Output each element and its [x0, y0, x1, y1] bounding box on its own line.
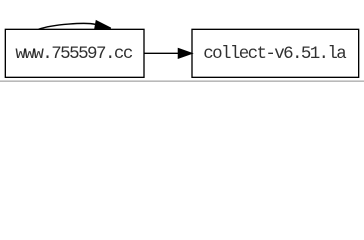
node collect-v6.51.la	[192, 29, 359, 77]
node www.755597.cc	[5, 29, 144, 77]
svg-text:collect-v6.51.la: collect-v6.51.la	[203, 44, 347, 64]
arrowhead of self-loop	[95, 21, 111, 29]
edge www.755597.cc -> collect-v6.51.la	[144, 52, 178, 54]
separator line	[0, 81, 364, 82]
self-loop edge www.755597.cc -> www.755597.cc	[39, 23, 96, 29]
arrowhead of edge	[178, 49, 191, 58]
svg-text:www.755597.cc: www.755597.cc	[15, 44, 133, 64]
